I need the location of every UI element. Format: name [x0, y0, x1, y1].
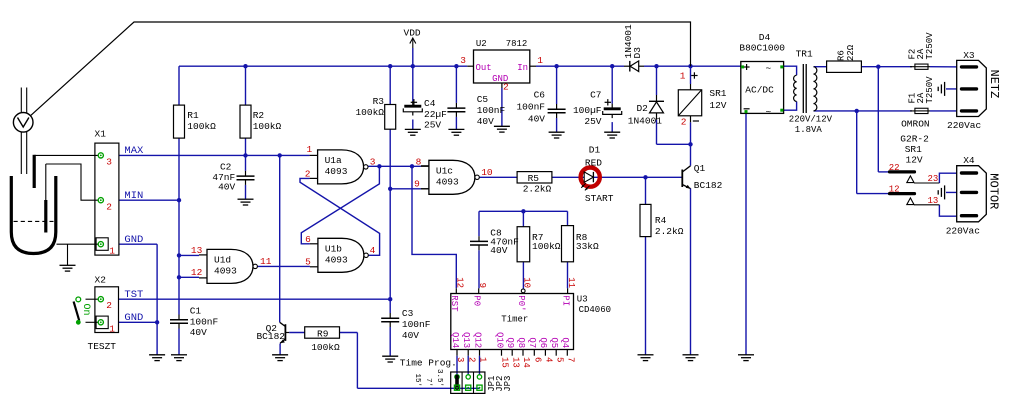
- svg-text:VDD: VDD: [404, 28, 421, 39]
- svg-text:~: ~: [766, 63, 772, 74]
- svg-text:13: 13: [191, 245, 203, 256]
- svg-text:4: 4: [544, 357, 554, 362]
- svg-text:BC182: BC182: [694, 180, 723, 191]
- svg-text:5: 5: [554, 357, 564, 362]
- svg-text:C2: C2: [220, 161, 232, 172]
- svg-text:9: 9: [477, 283, 487, 288]
- svg-text:13: 13: [928, 196, 939, 206]
- svg-text:11: 11: [260, 256, 272, 267]
- svg-text:AC/DC: AC/DC: [745, 84, 774, 95]
- svg-text:Timer: Timer: [501, 315, 528, 325]
- svg-text:6: 6: [533, 357, 543, 362]
- svg-text:2: 2: [503, 81, 509, 92]
- svg-text:2: 2: [106, 201, 112, 212]
- svg-text:In: In: [517, 63, 528, 73]
- svg-text:220V/12V: 220V/12V: [789, 115, 833, 125]
- svg-text:33kΩ: 33kΩ: [576, 241, 599, 252]
- svg-text:Q12: Q12: [472, 332, 482, 348]
- svg-text:X2: X2: [95, 275, 107, 286]
- svg-text:T250V: T250V: [925, 32, 935, 60]
- svg-text:12: 12: [889, 184, 900, 194]
- svg-text:22µF: 22µF: [424, 109, 447, 120]
- svg-text:U1d: U1d: [214, 255, 231, 266]
- svg-text:G2R-2: G2R-2: [900, 133, 929, 144]
- svg-text:15: 15: [500, 357, 510, 368]
- svg-text:U1b: U1b: [325, 244, 342, 255]
- svg-text:Out: Out: [476, 63, 492, 73]
- svg-text:C7: C7: [590, 89, 601, 100]
- svg-text:2.2kΩ: 2.2kΩ: [523, 184, 552, 195]
- svg-text:7': 7': [424, 378, 432, 387]
- svg-text:TESZT: TESZT: [88, 341, 117, 352]
- svg-text:T250V: T250V: [925, 76, 935, 104]
- svg-text:X3: X3: [963, 50, 975, 61]
- svg-text:R9: R9: [317, 328, 329, 339]
- svg-text:MOTOR: MOTOR: [987, 173, 1001, 209]
- svg-text:GND: GND: [124, 312, 143, 324]
- svg-text:U2: U2: [476, 39, 487, 49]
- svg-text:1: 1: [478, 357, 488, 362]
- svg-text:7812: 7812: [506, 39, 528, 49]
- svg-text:22: 22: [889, 163, 900, 173]
- svg-text:100kΩ: 100kΩ: [355, 107, 384, 118]
- svg-text:RST: RST: [449, 295, 459, 312]
- svg-text:C5: C5: [477, 94, 489, 105]
- svg-text:Q4: Q4: [560, 337, 570, 348]
- svg-text:1.8VA: 1.8VA: [795, 125, 823, 135]
- svg-text:Q14: Q14: [450, 332, 460, 348]
- svg-text:8: 8: [416, 156, 422, 167]
- svg-text:R5: R5: [528, 173, 540, 184]
- svg-text:100nF: 100nF: [190, 316, 219, 327]
- svg-text:4093: 4093: [214, 266, 237, 277]
- svg-text:220Vac: 220Vac: [946, 226, 981, 237]
- svg-text:4093: 4093: [436, 177, 459, 188]
- svg-text:C6: C6: [534, 89, 546, 100]
- svg-text:PI: PI: [560, 295, 570, 306]
- svg-text:D3: D3: [632, 47, 643, 59]
- svg-text:MAX: MAX: [124, 145, 144, 157]
- svg-text:Q1: Q1: [694, 163, 706, 174]
- svg-text:X4: X4: [963, 155, 975, 166]
- svg-text:TST: TST: [124, 289, 143, 301]
- svg-text:14: 14: [521, 357, 531, 368]
- svg-text:1: 1: [306, 144, 312, 155]
- svg-text:10: 10: [522, 277, 532, 288]
- svg-text:Q10: Q10: [494, 332, 504, 348]
- svg-text:100nF: 100nF: [477, 105, 506, 116]
- svg-text:CD4060: CD4060: [579, 305, 611, 315]
- svg-text:40V: 40V: [190, 327, 207, 338]
- svg-text:START: START: [585, 193, 614, 204]
- svg-text:12: 12: [455, 277, 465, 288]
- svg-text:100kΩ: 100kΩ: [253, 121, 282, 132]
- svg-text:Q6: Q6: [538, 337, 548, 348]
- svg-text:X1: X1: [95, 128, 107, 139]
- svg-text:12: 12: [191, 267, 203, 278]
- svg-text:B80C1000: B80C1000: [739, 42, 785, 53]
- svg-text:U1c: U1c: [436, 166, 453, 177]
- svg-text:2.2kΩ: 2.2kΩ: [655, 226, 684, 237]
- svg-text:R2: R2: [253, 110, 265, 121]
- svg-text:1N4001: 1N4001: [628, 116, 663, 127]
- svg-text:P0': P0': [516, 295, 526, 311]
- svg-text:23: 23: [928, 174, 939, 184]
- svg-text:TR1: TR1: [796, 49, 813, 60]
- svg-text:7: 7: [566, 357, 576, 362]
- svg-text:D2: D2: [636, 103, 648, 114]
- svg-text:On: On: [80, 304, 91, 316]
- svg-text:100kΩ: 100kΩ: [187, 121, 216, 132]
- svg-text:1: 1: [680, 71, 686, 82]
- svg-text:25V: 25V: [584, 116, 601, 127]
- svg-text:22Ω: 22Ω: [846, 44, 856, 61]
- svg-text:100kΩ: 100kΩ: [311, 342, 340, 353]
- svg-text:GND: GND: [124, 234, 143, 246]
- svg-text:SR1: SR1: [709, 88, 726, 99]
- svg-text:Q13: Q13: [461, 332, 471, 348]
- svg-text:2: 2: [305, 168, 311, 179]
- svg-text:100nF: 100nF: [402, 319, 431, 330]
- svg-text:RED: RED: [585, 158, 602, 169]
- svg-text:3: 3: [460, 55, 466, 66]
- svg-text:OMRON: OMRON: [901, 119, 930, 130]
- svg-text:40V: 40V: [402, 330, 419, 341]
- svg-text:JP3: JP3: [503, 376, 513, 392]
- svg-text:1: 1: [537, 55, 543, 66]
- svg-text:100nF: 100nF: [516, 101, 545, 112]
- svg-text:Time Prog.: Time Prog.: [400, 358, 457, 369]
- svg-text:25V: 25V: [424, 120, 441, 131]
- svg-text:U3: U3: [577, 294, 588, 304]
- svg-text:4: 4: [370, 245, 376, 256]
- svg-text:SR1: SR1: [905, 144, 922, 155]
- svg-text:15': 15': [413, 374, 421, 388]
- svg-text:100kΩ: 100kΩ: [532, 241, 561, 252]
- svg-text:10: 10: [481, 167, 493, 178]
- svg-text:4093: 4093: [325, 255, 348, 266]
- svg-text:3.5': 3.5': [435, 369, 443, 387]
- svg-text:4093: 4093: [325, 166, 348, 177]
- svg-text:6: 6: [305, 234, 311, 245]
- svg-text:R4: R4: [655, 215, 667, 226]
- svg-text:C1: C1: [190, 306, 202, 317]
- svg-text:~: ~: [766, 106, 772, 117]
- svg-text:U1a: U1a: [325, 155, 342, 166]
- svg-text:Q9: Q9: [505, 337, 515, 348]
- svg-text:40V: 40V: [490, 245, 507, 256]
- svg-text:2: 2: [681, 117, 687, 128]
- svg-text:R1: R1: [187, 110, 199, 121]
- svg-text:40V: 40V: [477, 116, 494, 127]
- svg-text:BC182: BC182: [256, 331, 285, 342]
- svg-text:Q7: Q7: [527, 337, 537, 348]
- svg-text:12V: 12V: [709, 100, 726, 111]
- svg-text:40V: 40V: [528, 113, 545, 124]
- svg-text:D1: D1: [589, 145, 601, 156]
- svg-text:P0: P0: [472, 295, 482, 306]
- svg-text:R3: R3: [373, 96, 385, 107]
- svg-text:Q8: Q8: [516, 337, 526, 348]
- svg-text:11: 11: [566, 277, 576, 288]
- svg-text:Q5: Q5: [549, 337, 559, 348]
- svg-text:220Vac: 220Vac: [947, 120, 982, 131]
- svg-text:1: 1: [109, 245, 115, 256]
- svg-text:NETZ: NETZ: [987, 70, 1001, 99]
- svg-text:1: 1: [109, 323, 115, 334]
- svg-text:12V: 12V: [906, 154, 923, 165]
- svg-text:100µF: 100µF: [573, 105, 602, 116]
- svg-text:C4: C4: [424, 98, 436, 109]
- svg-text:9: 9: [414, 179, 420, 190]
- svg-text:13: 13: [510, 357, 520, 368]
- svg-text:3: 3: [370, 157, 376, 168]
- svg-text:MIN: MIN: [124, 190, 143, 202]
- svg-text:C3: C3: [402, 308, 414, 319]
- svg-text:5: 5: [305, 256, 311, 267]
- svg-text:3: 3: [106, 156, 112, 167]
- svg-text:40V: 40V: [218, 182, 235, 193]
- svg-text:2: 2: [466, 357, 476, 362]
- svg-text:R6: R6: [837, 50, 847, 61]
- svg-text:2: 2: [106, 300, 112, 311]
